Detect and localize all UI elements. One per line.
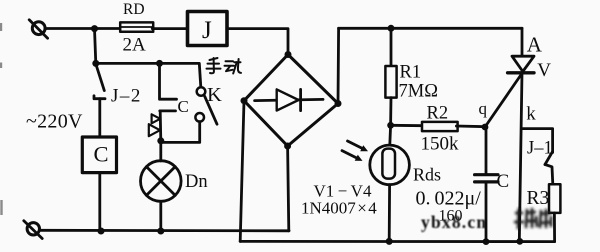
wire: K lower contact to lamp node	[161, 122, 200, 143]
contact C: arrow triangle lower	[149, 124, 160, 136]
svg-text:RD: RD	[123, 1, 145, 18]
svg-text:Dn: Dn	[185, 172, 208, 192]
svg-text:J–2: J–2	[111, 86, 142, 107]
wire: top rail to R1	[390, 28, 393, 66]
pushbutton K: arm	[205, 96, 217, 124]
svg-text:K: K	[207, 84, 222, 106]
relay contact J-2 (switch arm)	[96, 66, 104, 91]
wire: DC positive riser from bridge right vertex	[337, 28, 340, 103]
svg-text:q: q	[479, 99, 488, 118]
wire: lamp node to lamp	[159, 141, 162, 161]
svg-text:0. 022μ/: 0. 022μ/	[416, 188, 482, 210]
wire: switch row horizontal to K switch	[96, 63, 201, 87]
wire: J-1 to R3	[545, 165, 553, 185]
node junction: DC rail / capacitor	[483, 238, 490, 245]
diode symbol inside bridge	[255, 89, 323, 110]
node junction: top rail / J-2 branch	[91, 25, 98, 32]
wire: top AC rail from terminal to fuse	[45, 27, 120, 30]
wire: gate lead to thyristor	[485, 76, 521, 128]
wire: divider node to photoresistor	[388, 125, 392, 145]
node junction: switch row left	[92, 60, 99, 67]
resistor R3	[549, 184, 560, 213]
wire: bottom AC rail	[39, 229, 289, 232]
node: bridge bottom vertex	[284, 143, 291, 150]
contact hook of J-2	[94, 96, 105, 99]
blurred footer text (obscured)	[514, 208, 552, 229]
wire: DC negative drop from bridge left vertex	[240, 101, 244, 242]
wire: thyristor cathode down to DC rail	[519, 73, 522, 242]
svg-text:7MΩ: 7MΩ	[399, 81, 438, 101]
svg-text:V1 − V4: V1 − V4	[314, 181, 372, 200]
wire: lamp to bottom AC rail	[159, 201, 162, 231]
bridge rectifier V1-V4 (diamond)	[244, 55, 338, 147]
node junction: DC rail / cathode	[516, 238, 523, 245]
capacitor C 0.022u	[475, 175, 498, 182]
svg-text:R3: R3	[527, 188, 550, 209]
label 手动 (manual) drawn strokes	[207, 58, 242, 74]
svg-text:V: V	[537, 60, 551, 81]
svg-text:ybx8.cn: ybx8.cn	[421, 212, 487, 232]
svg-text:k: k	[526, 104, 536, 125]
node junction: C contact branch	[156, 60, 163, 67]
wire: DC negative bottom rail	[240, 240, 554, 243]
wire: divider node to R2	[391, 124, 423, 127]
wire: fuse to relay coil J	[152, 27, 187, 30]
lamp Dn	[141, 161, 182, 202]
svg-text:R1: R1	[400, 62, 422, 82]
node junction: top rail / R1	[388, 25, 395, 32]
node junction: AC rail / lamp branch	[157, 228, 164, 235]
contact C (thermostat contact): fixed contact stub	[160, 63, 177, 99]
wire: bridge bottom vertex to AC rail	[288, 146, 289, 231]
svg-text:Rds: Rds	[413, 164, 441, 184]
contact C: moving bar	[160, 110, 176, 113]
svg-text:C: C	[94, 142, 109, 167]
node: bridge left vertex	[241, 97, 248, 104]
svg-text:A: A	[527, 32, 543, 56]
thyristor V	[508, 56, 534, 73]
svg-text:C: C	[497, 171, 510, 192]
node: bridge right vertex	[335, 100, 342, 107]
node junction: lamp / K / C contact	[157, 137, 164, 144]
svg-text:J: J	[202, 17, 212, 44]
node junction: AC rail / C box branch	[98, 228, 105, 235]
svg-text:R2: R2	[427, 103, 449, 123]
wire: thyristor anode drop	[521, 28, 524, 55]
contact C: arrow triangle upper	[152, 114, 161, 123]
capacitor box C (series capacitor)	[82, 137, 116, 173]
wire: capacitor to DC rail	[485, 182, 488, 242]
wire: C box to bottom AC rail	[98, 173, 101, 231]
wire: R1 to divider node	[389, 98, 392, 126]
photoresistor Rds	[370, 145, 410, 185]
wire: Rds to DC negative rail	[388, 185, 391, 242]
wire: J-2 to capacitor box C	[98, 99, 101, 137]
relay coil J (box)	[188, 12, 228, 46]
node junction: R1 / R2 / Rds divider	[387, 122, 394, 129]
contact C: stem	[159, 111, 162, 141]
svg-text:1N4007 × 4: 1N4007 × 4	[301, 199, 377, 218]
wire: R2 to gate node q	[456, 125, 486, 128]
scan smudge marks at left edge	[0, 23, 3, 215]
light arrow 1 into Rds	[348, 141, 369, 151]
fuse RD 2A	[120, 22, 153, 31]
svg-text:150k: 150k	[421, 134, 460, 155]
svg-text:2A: 2A	[123, 35, 147, 56]
wire: R3 to DC rail end	[553, 213, 556, 242]
wire: J coil to bridge top vertex	[227, 29, 288, 55]
svg-text:~220V: ~220V	[26, 111, 83, 133]
pushbutton K: upper contact	[197, 87, 206, 96]
svg-text:C: C	[178, 97, 189, 116]
node junction: gate node q	[482, 124, 489, 131]
wire: gate node to capacitor C	[485, 127, 488, 174]
node: bridge top vertex	[285, 51, 292, 58]
wire: DC positive top rail to thyristor anode	[339, 27, 522, 30]
resistor R1	[385, 66, 396, 98]
node junction: DC rail / Rds	[386, 238, 393, 245]
terminal X2 (bottom left AC input)	[24, 221, 42, 239]
terminal X1 (top left AC input)	[29, 20, 47, 38]
pushbutton K: lower contact	[195, 113, 204, 122]
resistor R2	[422, 122, 458, 131]
wire: vertical drop from top rail to switch row	[95, 29, 96, 64]
relay contact J-1 (arm)	[545, 152, 553, 165]
wire: cathode branch to J-1	[522, 129, 552, 153]
light arrow 2 into Rds	[342, 151, 363, 161]
